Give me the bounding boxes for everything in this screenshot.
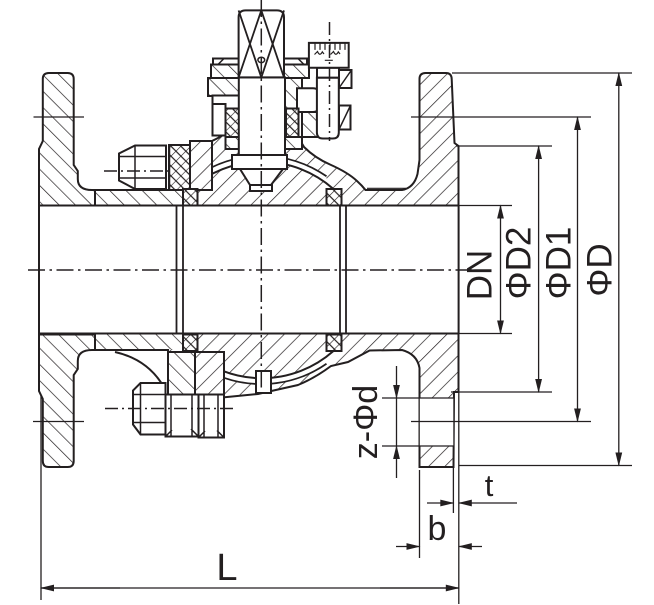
bonnet: gland plate <box>213 59 307 65</box>
drain notch <box>256 371 271 393</box>
seat retainer lines <box>177 206 347 334</box>
ball bottom segment <box>191 334 334 379</box>
left flange top <box>39 73 95 206</box>
svg-text:L: L <box>216 547 237 589</box>
phiD1 <box>577 117 579 422</box>
gland bolt lug <box>213 104 226 136</box>
top hex bolt <box>119 146 166 190</box>
ball top segment <box>191 162 334 206</box>
bottom hex bolt <box>133 383 224 438</box>
phiD2 <box>538 146 540 392</box>
DN <box>500 206 502 334</box>
packing boxes <box>226 109 240 138</box>
centerlines <box>28 0 472 409</box>
body bottom hatched region (merged with right flange bottom) <box>88 334 459 468</box>
bracket to grease fitting <box>297 88 319 112</box>
bottom cap plates <box>168 352 195 397</box>
svg-text:ΦD: ΦD <box>580 243 619 296</box>
stem shaft <box>239 77 285 155</box>
bore lines <box>39 206 459 334</box>
bonnet left stack <box>208 78 239 96</box>
left hub bands reverse hatch <box>89 191 183 205</box>
seat boxes <box>183 189 198 206</box>
hub face second lines <box>367 187 406 189</box>
svg-text:b: b <box>428 510 447 548</box>
end faces across bore <box>39 206 459 334</box>
phiD <box>618 73 620 466</box>
svg-text:ΦD1: ΦD1 <box>539 227 578 300</box>
z-phid <box>396 366 398 398</box>
svg-text:DN: DN <box>460 250 499 301</box>
left flange bottom <box>39 335 95 468</box>
grease fitting <box>339 70 352 88</box>
cap flange curve <box>115 352 162 384</box>
bonnet right stack <box>285 78 302 109</box>
svg-text:t: t <box>485 468 494 503</box>
L <box>41 587 459 589</box>
body top hatched region (merged with right flange top) <box>88 73 459 206</box>
bolt hole in right flange <box>420 398 454 446</box>
svg-text:z-Φd: z-Φd <box>347 385 385 459</box>
top joint plates <box>169 145 190 190</box>
stem X-block <box>239 10 284 77</box>
stem foot <box>232 155 287 169</box>
extension lines <box>459 206 512 334</box>
chamber wall arcs <box>197 156 327 176</box>
svg-text:ΦD2: ΦD2 <box>499 227 538 300</box>
b <box>396 546 420 548</box>
t <box>427 502 453 504</box>
bonnet flange <box>211 65 309 79</box>
